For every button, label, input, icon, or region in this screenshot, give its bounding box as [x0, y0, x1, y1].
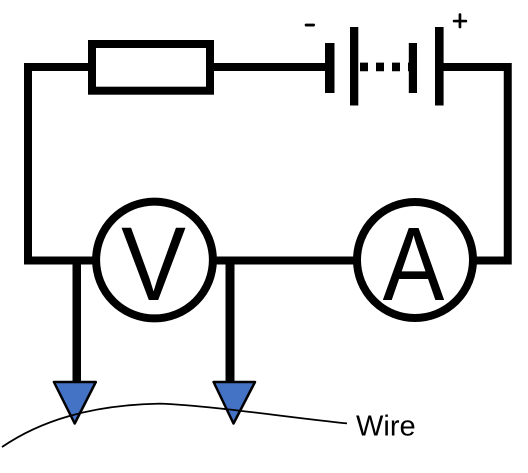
probe lead 1 [73, 257, 82, 383]
probe tip 1 (arrow) [54, 382, 96, 424]
svg-text:V: V [121, 206, 186, 323]
resistor R [92, 44, 210, 91]
battery plate 1 (negative, short) [325, 43, 335, 93]
voltmeter V1 circle [96, 202, 213, 319]
battery plate 2 (tall) [350, 27, 358, 106]
svg-text:Wire: Wire [356, 411, 416, 443]
battery dashed link [360, 63, 413, 72]
ammeter A1 circle [357, 202, 473, 318]
probe tip 2 (arrow) [214, 382, 255, 424]
wire under test (curve) [2, 404, 347, 447]
battery plate 4 (positive, tall) [435, 27, 444, 106]
battery plate 3 (short) [409, 43, 417, 93]
battery minus label [305, 24, 315, 27]
wire: main circuit loop (left, bottom, right sides) [28, 67, 508, 261]
probe lead 2 [226, 257, 235, 383]
svg-text:A: A [383, 204, 445, 322]
battery plus label [453, 13, 467, 28]
wire: top segment between resistor and battery [210, 63, 326, 71]
